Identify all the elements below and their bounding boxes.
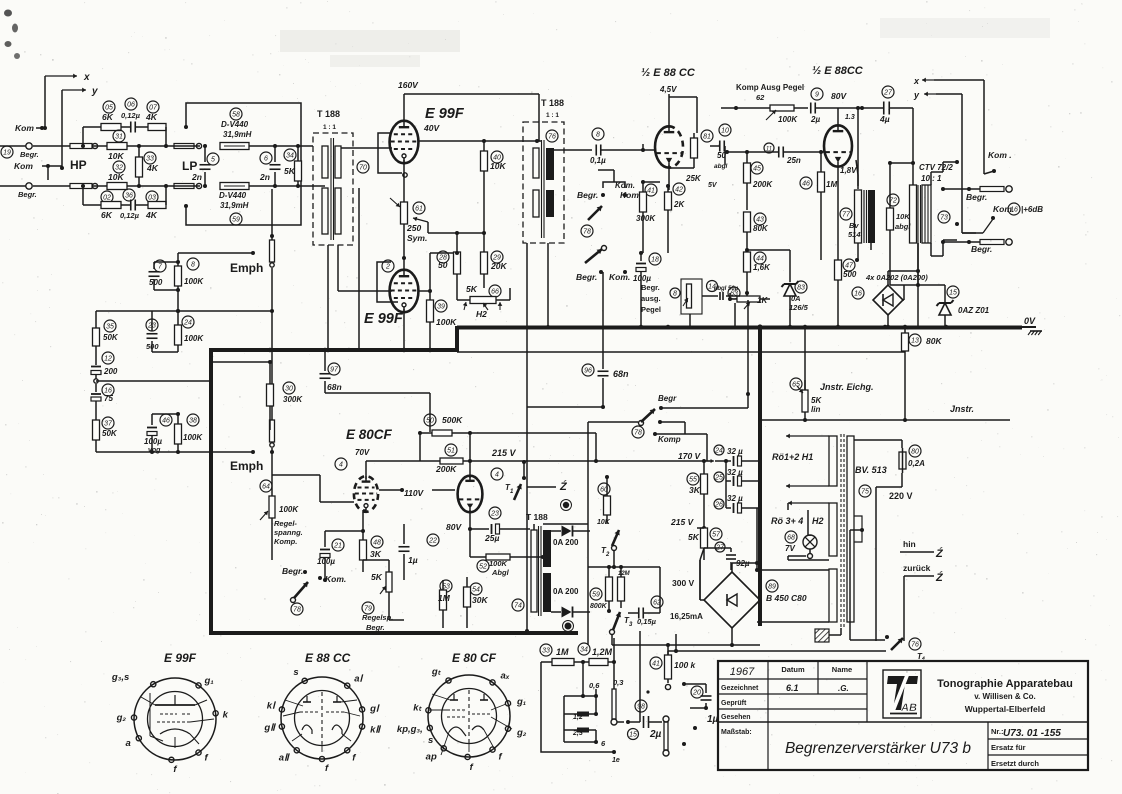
resistor 100k bottom (665, 645, 697, 690)
wire winding C bottom (757, 508, 829, 622)
trimmer box begr-ausg (670, 279, 718, 314)
wire Bv514 anode link (856, 106, 860, 189)
wire LP rail2 into T1 (313, 185, 325, 187)
circled 2 (382, 260, 394, 272)
svg-text:33: 33 (146, 155, 154, 162)
svg-text:Begr.: Begr. (18, 190, 37, 199)
svg-text:T₄: T₄ (917, 652, 925, 661)
svg-text:Jnstr.: Jnstr. (950, 404, 974, 414)
label 6K top (102, 112, 114, 122)
svg-text:51: 51 (447, 447, 455, 454)
circled 03b (146, 191, 158, 203)
svg-text:Begr: Begr (658, 394, 677, 403)
circled 30 (283, 382, 295, 394)
svg-text:abgl: abgl (895, 222, 911, 231)
svg-text:97: 97 (330, 366, 339, 373)
svg-text:76: 76 (548, 133, 556, 140)
svg-text:4K: 4K (146, 163, 159, 173)
resistor 10K t188-2 (481, 139, 507, 233)
svg-text:7V: 7V (785, 544, 795, 553)
wire emph row2 (96, 311, 178, 365)
wire drop x640 (639, 631, 641, 722)
svg-text:514: 514 (848, 230, 861, 239)
label HP (70, 158, 87, 172)
circled 74 (512, 599, 524, 611)
label 1967 (730, 666, 755, 678)
svg-text:v. Willisen & Co.: v. Willisen & Co. (974, 692, 1036, 701)
wire grid1 up (642, 144, 644, 150)
svg-text:8: 8 (673, 290, 677, 297)
svg-text:aⅡ: aⅡ (279, 752, 290, 763)
tube E88CC no.1 (655, 126, 683, 167)
svg-text:75: 75 (104, 394, 113, 403)
wire bottom out (604, 750, 620, 764)
svg-text:kₜ: kₜ (413, 702, 422, 713)
svg-text:46: 46 (802, 180, 810, 187)
circled 62a (651, 596, 663, 608)
svg-text:78: 78 (583, 228, 591, 235)
svg-text:Kom: Kom (14, 161, 33, 171)
circled 28 (437, 251, 449, 263)
circled 78b (291, 603, 303, 615)
label 300V (672, 578, 695, 588)
label Begr sw2 (576, 270, 603, 282)
svg-text:89: 89 (768, 583, 776, 590)
circled 98 (635, 700, 647, 712)
wire feedback top left (81, 127, 168, 148)
svg-text:2n: 2n (191, 172, 202, 182)
wire t2 node row (588, 565, 628, 569)
label Geprueft (721, 700, 747, 707)
svg-text:3K: 3K (370, 549, 382, 559)
label 5K cf (371, 572, 383, 582)
resistor 2K (665, 182, 718, 253)
capacitor 32u no.2 (724, 459, 759, 486)
wire emph lower (104, 450, 255, 454)
logo TAB (887, 673, 918, 716)
svg-text:50K: 50K (103, 333, 119, 342)
wire y down (60, 90, 64, 170)
wire tube E88-1 top (669, 94, 697, 133)
svg-text:4: 4 (495, 471, 499, 478)
wire T1 sec to tube2 grid (338, 245, 392, 291)
label Datum (781, 665, 805, 674)
wire emph row2 right (176, 309, 274, 313)
label B450 C80 (766, 593, 807, 603)
svg-text:g₁: g₁ (204, 675, 214, 686)
svg-text:45: 45 (753, 165, 761, 172)
wire cf2 anode link (432, 489, 455, 491)
svg-text:37: 37 (104, 420, 113, 427)
svg-text:300K: 300K (283, 395, 303, 404)
circled 59b (590, 588, 602, 600)
svg-text:4K: 4K (145, 112, 158, 122)
circled 18 (649, 253, 661, 265)
svg-text:E 80CF: E 80CF (346, 427, 393, 442)
wire CTV sec bottom (918, 243, 943, 285)
label 170V (678, 451, 702, 461)
svg-text:k: k (223, 709, 229, 720)
label 110V (404, 488, 425, 498)
resistor 25K (669, 133, 702, 183)
label half E88CC no.2 (812, 65, 864, 77)
svg-text:100K: 100K (183, 433, 203, 442)
circled 75 (859, 485, 871, 497)
box bottom circuit (541, 662, 604, 752)
svg-text:2µ: 2µ (649, 729, 662, 740)
circled 22 (427, 534, 439, 546)
svg-text:12M: 12M (618, 571, 631, 577)
svg-text:160V: 160V (398, 80, 419, 90)
svg-text:30: 30 (285, 385, 293, 392)
wire tube1 anode out (418, 136, 540, 143)
capacitor 92u (704, 548, 750, 570)
svg-text:8: 8 (191, 261, 195, 268)
label Bv 514 (848, 221, 861, 239)
label CTV 72/2 (919, 163, 953, 183)
circled 45 (751, 162, 763, 174)
circled 9b (811, 88, 823, 100)
potentiometer 5K cf (363, 560, 392, 605)
svg-text:300K: 300K (636, 214, 656, 223)
svg-text:100K: 100K (778, 115, 798, 124)
svg-text:10K: 10K (108, 172, 124, 182)
resistor 300K mid (267, 362, 304, 430)
tube E99F no.2 (390, 270, 419, 313)
socket E99F internals (141, 693, 214, 748)
potentiometer 250 Sym (390, 198, 427, 243)
circled 34b (578, 643, 590, 655)
circled 44 (754, 252, 766, 264)
wire 215V rail (463, 459, 714, 463)
svg-text:5K: 5K (284, 166, 296, 176)
svg-text:s: s (428, 735, 433, 746)
label Willisen (974, 692, 1036, 701)
svg-text:220 V: 220 V (889, 491, 913, 501)
bus 0V left segment (211, 348, 459, 353)
resistor 20K (481, 231, 508, 288)
svg-text:06: 06 (127, 101, 135, 108)
svg-text:H2: H2 (476, 309, 487, 319)
label Emph upper (230, 261, 263, 275)
svg-text:Geprüft: Geprüft (721, 700, 747, 707)
switch out1 (943, 80, 996, 174)
wire tube1 cathode down (668, 165, 670, 190)
circled 23b (489, 507, 501, 519)
circled 78c (632, 426, 644, 438)
svg-text:200K: 200K (752, 180, 773, 189)
svg-text:80: 80 (911, 448, 919, 455)
label E80CF (346, 427, 393, 442)
svg-text:50: 50 (438, 260, 448, 270)
wire t3 bottom (611, 634, 613, 645)
svg-text:70V: 70V (355, 448, 370, 457)
circled 50 (424, 414, 436, 426)
circled 47 (843, 259, 855, 271)
label Regelsp Begr (362, 613, 393, 632)
zener OA126/5 (782, 281, 809, 327)
label 1,8V (840, 166, 857, 175)
transformer BV513 winding B (788, 501, 837, 556)
trim caps begr-ausg (714, 286, 740, 300)
resistor 100K tube2 (427, 291, 458, 350)
capacitor 1u bottom (690, 684, 719, 725)
svg-text:2: 2 (385, 263, 390, 270)
switch arm sw1 (588, 206, 602, 220)
svg-text:50µ: 50µ (728, 286, 739, 292)
circled 25 (714, 472, 724, 482)
resistor 200K e88 (744, 150, 774, 210)
resistor 500K (420, 415, 598, 463)
svg-text:Pegel: Pegel (641, 305, 661, 314)
svg-text:3K: 3K (689, 485, 701, 495)
circled 34 (284, 149, 296, 161)
label Instr Eichg (820, 382, 874, 392)
label Nr (991, 727, 1061, 739)
svg-text:52: 52 (479, 563, 487, 570)
circled 23a (146, 319, 158, 331)
switch arm cf (291, 582, 309, 603)
wire Bv514 leads (855, 160, 871, 262)
svg-text:5K: 5K (466, 284, 478, 294)
capacitor 25n grid2 (725, 143, 824, 165)
emph coupling resistor upper (270, 228, 275, 310)
resistor 4K shunt (136, 144, 159, 188)
svg-text:100µ: 100µ (144, 437, 162, 446)
svg-text:abgl: abgl (714, 286, 727, 292)
wire inner top (564, 689, 598, 742)
circled 4a (335, 458, 347, 470)
label 800K (590, 603, 608, 610)
label D-V440 lower (219, 191, 247, 200)
connector out2 (980, 239, 1012, 245)
svg-text:100K: 100K (489, 559, 508, 568)
label Kom lower (14, 161, 62, 180)
svg-text:6: 6 (264, 155, 268, 162)
svg-text:Emph: Emph (230, 261, 263, 275)
svg-text:Rö1+2 H1: Rö1+2 H1 (772, 452, 813, 462)
svg-text:Begrenzerverstärker U73 b: Begrenzerverstärker U73 b (785, 740, 971, 757)
svg-text:40V: 40V (423, 123, 440, 133)
svg-text:Datum: Datum (781, 665, 805, 674)
svg-text:23: 23 (490, 510, 499, 517)
potentiometer 1K (728, 296, 770, 309)
svg-text:38: 38 (189, 417, 197, 424)
label Komp psu (653, 420, 707, 444)
circled 24a (182, 316, 194, 328)
label Kom out2 (993, 203, 1043, 215)
wire heater rail (457, 351, 905, 353)
transformer T188-2 winding p1 (533, 148, 539, 178)
label Kom upper (15, 123, 45, 133)
svg-text:81: 81 (703, 133, 711, 140)
switch T4 (885, 635, 925, 661)
wire winding B bottom (788, 556, 829, 560)
svg-text:39: 39 (437, 303, 445, 310)
transformer CTV core (918, 185, 921, 243)
svg-text:16: 16 (1010, 206, 1018, 213)
resistor 10K line2 (107, 172, 200, 190)
transformer T188-1 winding s2 (335, 188, 341, 234)
BV513 tap box (854, 516, 864, 542)
capacitor 68n no.1 (320, 350, 342, 393)
circled 32 (113, 161, 125, 173)
svg-text:80K: 80K (926, 336, 942, 346)
svg-text:1M: 1M (556, 647, 569, 657)
emph coupling resistor lower (270, 410, 275, 454)
svg-text:0V: 0V (1024, 316, 1036, 326)
resistor 6K top (83, 124, 121, 131)
capacitor 0,12u top (121, 122, 148, 133)
wire winding C top (755, 568, 829, 572)
label Ersatz fuer (991, 743, 1026, 752)
node y arrow (input) (62, 86, 98, 97)
svg-text:2: 2 (605, 552, 610, 558)
resistor 50K lower (93, 420, 118, 452)
circled 27 (882, 86, 894, 98)
svg-text:x: x (83, 72, 90, 83)
svg-text:|+6dB: |+6dB (1021, 205, 1043, 214)
circled 46b (160, 414, 172, 426)
circled 65 (790, 378, 802, 390)
svg-text:32 µ: 32 µ (727, 494, 743, 503)
label Z hin (935, 547, 944, 560)
svg-text:32 µ: 32 µ (727, 447, 743, 456)
wire cap 2u row (617, 720, 640, 724)
svg-text:50K: 50K (102, 429, 118, 438)
wire 80V down tube (838, 108, 855, 127)
resistor 80K (744, 212, 769, 250)
svg-text:aр: aр (426, 751, 437, 762)
wire komp link (661, 300, 750, 461)
svg-text:96: 96 (584, 367, 592, 374)
svg-text:g₂: g₂ (516, 728, 527, 739)
svg-text:1e: 1e (612, 757, 620, 764)
svg-text:250: 250 (406, 223, 421, 233)
circled 4b (491, 468, 503, 480)
svg-text:T 188: T 188 (317, 109, 340, 119)
label 31,9mH upper (223, 130, 252, 139)
svg-text:g₁: g₁ (516, 696, 526, 707)
svg-text:lin: lin (811, 405, 820, 414)
svg-text:55: 55 (689, 476, 697, 483)
svg-text:1K: 1K (757, 296, 768, 305)
circled 36b (123, 189, 135, 201)
tube E80CF no.1 (354, 476, 378, 512)
svg-text:25n: 25n (786, 156, 801, 165)
circled 53 (440, 580, 452, 592)
resistor 0,3 long (611, 638, 617, 725)
svg-text:aⅠ: aⅠ (354, 674, 363, 685)
svg-text:13: 13 (911, 337, 919, 344)
circled 43 (754, 213, 766, 225)
circled 51 (445, 444, 457, 456)
circled 70 (357, 161, 369, 173)
resistor 10K line1 (107, 143, 200, 162)
wire mid connect (94, 379, 212, 383)
svg-text:4K: 4K (145, 210, 158, 220)
tube E80CF no.2 (458, 476, 483, 513)
circled 35 (104, 320, 116, 332)
circled 58 (230, 108, 242, 120)
svg-text:T 188: T 188 (541, 98, 564, 108)
svg-text:26: 26 (714, 501, 723, 508)
label D-V440 upper (221, 120, 249, 129)
circled 29 (491, 251, 503, 263)
inductor D-V440 upper (220, 143, 313, 150)
circled 07 (147, 101, 159, 113)
svg-text:24: 24 (183, 319, 192, 326)
svg-text:D-V440: D-V440 (221, 120, 249, 129)
tube E99F no.1 (390, 121, 419, 164)
circled 81 (701, 130, 713, 142)
circled 78a (581, 225, 593, 237)
resistor 12M t3 (618, 567, 631, 608)
svg-text:20: 20 (692, 689, 701, 696)
bus right vertical (758, 326, 762, 626)
inductor D-V440 lower (220, 183, 313, 190)
transformer T188-1 core (331, 138, 334, 240)
circled 68 (785, 531, 797, 543)
label 0,12u top (121, 111, 141, 120)
svg-text:10: 10 (721, 127, 729, 134)
circled 33 (144, 152, 156, 164)
node x out arrow (913, 76, 984, 86)
svg-text:27: 27 (883, 89, 893, 96)
wire bridge taps (700, 560, 732, 645)
circled 8b (187, 258, 199, 270)
grid bracket tube2 (377, 262, 398, 302)
label Name (832, 665, 852, 674)
svg-text:100K: 100K (184, 277, 204, 286)
circled 57 (710, 528, 722, 540)
label 0,3 (613, 678, 624, 687)
svg-text:Maßstab:: Maßstab: (721, 729, 752, 736)
svg-text:0,12µ: 0,12µ (121, 111, 141, 120)
node y out arrow (913, 90, 976, 233)
circled 24b (714, 445, 724, 455)
wire T188-1 bottom drop (328, 188, 359, 350)
svg-text:07: 07 (149, 104, 158, 111)
svg-text:500: 500 (146, 342, 159, 351)
wire 5K lin top (804, 329, 806, 390)
svg-text:100K: 100K (279, 505, 299, 514)
wire out2 link (941, 240, 980, 244)
wire tube2 down (403, 309, 405, 350)
capacitor 500b (146, 311, 159, 352)
svg-text:Emph: Emph (230, 459, 263, 473)
label half E88CC no.1 (641, 67, 696, 79)
wire regel tap (272, 475, 354, 502)
wire mid rail 362 (212, 360, 272, 364)
resistor out bottom (663, 716, 669, 756)
svg-text:Bv: Bv (849, 221, 859, 230)
label Kom out1 (988, 150, 1012, 160)
svg-text:0A 200: 0A 200 (553, 587, 579, 596)
wire regel pot (271, 452, 273, 560)
capacitor 100u emph (144, 414, 162, 454)
svg-text:spanng.: spanng. (274, 528, 303, 537)
label 160V (398, 80, 419, 90)
circled 31 (113, 130, 125, 142)
label Regel-spanng (274, 519, 303, 546)
svg-text:50: 50 (426, 417, 434, 424)
svg-text:68n: 68n (613, 369, 629, 379)
capacitor 0,15u (628, 567, 660, 626)
label Ersetzt durch (991, 759, 1039, 768)
svg-text:10K: 10K (490, 161, 506, 171)
resistor 200K cf (418, 431, 463, 474)
